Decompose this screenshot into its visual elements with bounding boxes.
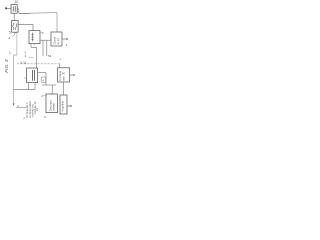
bus vertical upper <box>16 33 18 55</box>
svg-text:Amplifier: Amplifier <box>61 101 65 112</box>
wire down to comparator <box>59 64 61 68</box>
bus vertical lower <box>13 55 15 104</box>
arrow output of U5 <box>67 105 72 107</box>
wire T1 right to junction <box>38 73 46 85</box>
oscillator U1 <box>12 21 19 33</box>
decoder U4 <box>46 94 57 113</box>
wire below oscillator <box>12 32 15 36</box>
transformer T1 <box>27 68 38 83</box>
svg-text:ator 30: ator 30 <box>61 71 65 80</box>
label 5 stack <box>25 50 34 57</box>
wire drop B <box>46 40 48 56</box>
svg-text:1.: 1. <box>9 51 12 55</box>
svg-text:1.: 1. <box>66 43 69 47</box>
comparator U3 <box>58 68 70 82</box>
wire drop A <box>42 40 44 56</box>
label 50 <box>39 31 44 35</box>
svg-text:er 16: er 16 <box>56 37 60 44</box>
wire top horizontal <box>19 12 30 14</box>
note text block (rotated annotation) <box>25 101 37 118</box>
label 10 <box>14 0 18 5</box>
wire down into transformer <box>36 47 38 67</box>
wire to bus <box>14 89 35 91</box>
wire U1 to divider <box>18 24 33 30</box>
wire divider to counter <box>40 39 51 41</box>
svg-text:output: output <box>52 103 56 111</box>
label 40 small box <box>41 77 45 83</box>
bus jog <box>14 54 17 56</box>
svg-text:4: 4 <box>8 37 10 41</box>
svg-text:5: 5 <box>9 31 11 35</box>
stubs below T1 <box>29 83 35 90</box>
wire crystal to bus corner <box>17 9 19 14</box>
arrow output of U2 <box>62 38 68 40</box>
svg-text:module 10: module 10 <box>33 101 37 115</box>
label left of decoder <box>41 94 45 98</box>
wire crystal to oscillator <box>13 13 15 20</box>
svg-text:5.: 5. <box>44 115 46 119</box>
driver U5 <box>60 95 67 114</box>
node terminal (small square) <box>5 7 7 9</box>
wire corner down to U2 <box>56 13 58 32</box>
wire joining stubs <box>31 46 37 48</box>
svg-text:54: 54 <box>48 54 52 58</box>
wire left of crystal <box>7 7 11 9</box>
svg-text:.:: .: <box>36 82 38 86</box>
crystal X1 <box>11 5 17 14</box>
dashed net line <box>17 63 60 65</box>
wire to driver top <box>63 82 65 95</box>
divider U2a <box>29 31 40 44</box>
leader to T1 <box>24 77 27 79</box>
stubs below divider <box>31 44 34 48</box>
bus arrowhead ground <box>13 103 26 107</box>
svg-text:FIG. 3: FIG. 3 <box>4 59 10 73</box>
arrow output of U3 <box>70 74 76 76</box>
wire top horizontal faint continuation <box>30 12 57 15</box>
svg-text:.: . <box>19 44 20 48</box>
junction net wire <box>42 84 56 86</box>
counter U2 <box>51 32 62 46</box>
wire to decoder top <box>51 85 53 94</box>
